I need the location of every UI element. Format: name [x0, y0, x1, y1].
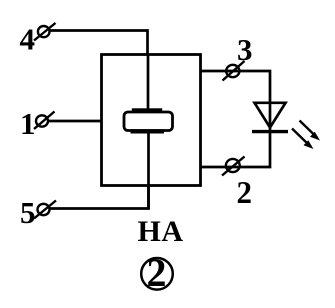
wire box right to LED top: [200, 71, 270, 104]
svg-text:2: 2: [147, 250, 167, 295]
svg-text:4: 4: [20, 22, 36, 57]
terminal 4: [34, 23, 56, 41]
svg-text:HA: HA: [138, 215, 184, 248]
figure number circle: [141, 258, 173, 290]
buzzer box HA: [102, 55, 201, 186]
buzzer element lead top: [147, 54, 150, 110]
wire terminal4 to box top: [49, 31, 148, 57]
svg-text:2: 2: [237, 174, 253, 210]
svg-text:1: 1: [20, 106, 36, 141]
buzzer piezo disc: [124, 112, 173, 131]
LED cathode bar: [252, 130, 288, 133]
buzzer element lead bottom: [147, 133, 150, 209]
wire LED to corner and terminal 2: [200, 131, 270, 167]
buzzer bottom electrode bar: [131, 129, 165, 133]
buzzer top electrode bar: [132, 108, 162, 112]
LED anode wire through triangle: [269, 102, 272, 131]
LED light arrow upper: [300, 121, 321, 141]
terminal 2: [222, 157, 245, 176]
svg-text:5: 5: [20, 195, 36, 230]
terminal 5: [34, 201, 56, 219]
LED VD triangle: [255, 103, 286, 128]
terminal 1: [34, 112, 55, 130]
LED light arrow lower: [292, 129, 314, 150]
wire terminal1 to box left: [48, 120, 102, 123]
terminal 3: [223, 61, 245, 81]
wire terminal5 to box bottom: [49, 184, 149, 209]
